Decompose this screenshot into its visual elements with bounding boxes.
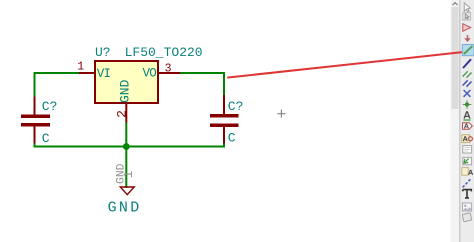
svg-text:C: C xyxy=(228,131,236,146)
svg-text:1: 1 xyxy=(122,171,136,179)
svg-text:VI: VI xyxy=(97,67,111,81)
svg-text:C?: C? xyxy=(42,99,58,114)
svg-text:1: 1 xyxy=(77,60,84,73)
svg-text:GND: GND xyxy=(118,79,133,103)
svg-text:2: 2 xyxy=(114,110,129,118)
svg-text:C: C xyxy=(42,131,50,146)
svg-text:VO: VO xyxy=(143,67,157,81)
svg-text:U?: U? xyxy=(95,45,111,60)
svg-text:GND: GND xyxy=(108,199,142,216)
svg-text:LF50_TO220: LF50_TO220 xyxy=(125,45,203,60)
svg-text:C?: C? xyxy=(228,99,244,114)
svg-text:3: 3 xyxy=(165,63,172,76)
